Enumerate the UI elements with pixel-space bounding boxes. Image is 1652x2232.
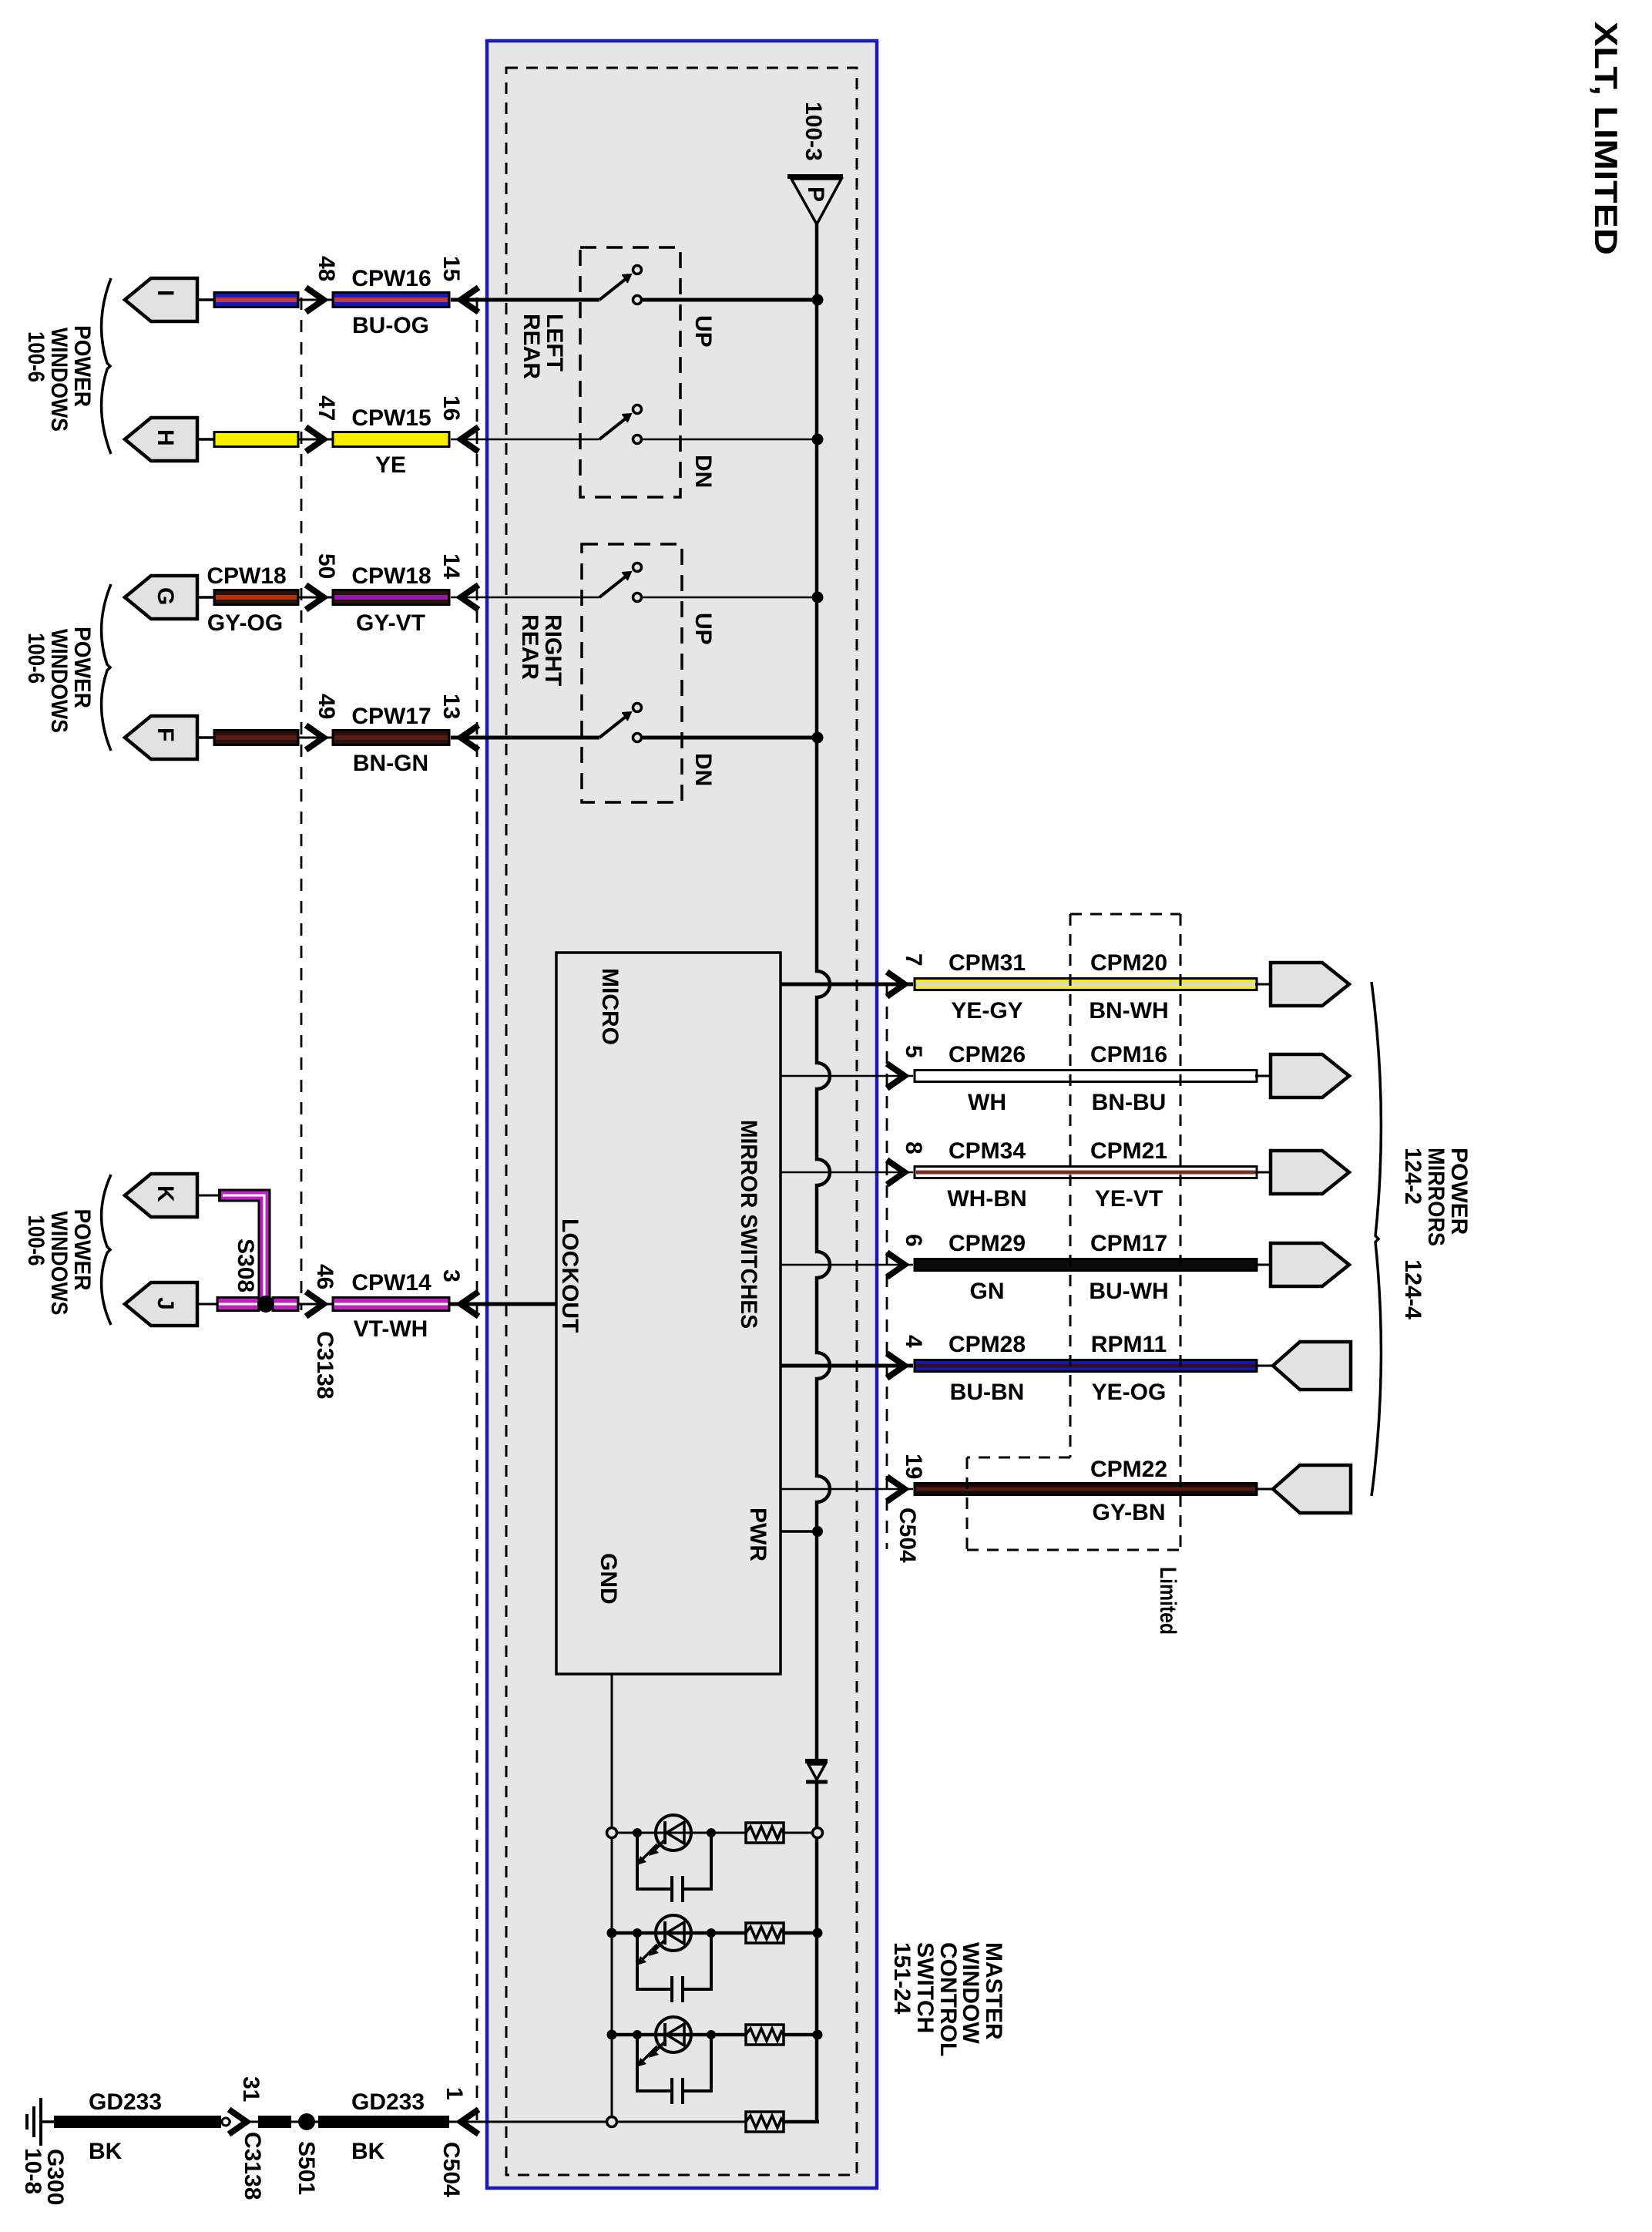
- svg-text:REAR: REAR: [519, 314, 544, 379]
- connector G: [125, 576, 197, 619]
- svg-text:C3138: C3138: [312, 1331, 337, 1399]
- svg-text:Limited: Limited: [1155, 1567, 1180, 1635]
- brace power mirrors: [1372, 982, 1381, 1496]
- left rear window switch dashed box: [580, 247, 680, 497]
- window switch contacts for pin 16: [451, 405, 824, 445]
- brace power windows 2: [102, 584, 111, 751]
- svg-text:1: 1: [442, 2087, 467, 2100]
- wire CPW15 YE pin 16: [197, 427, 478, 452]
- svg-text:13: 13: [438, 694, 464, 719]
- svg-text:100-3: 100-3: [801, 102, 826, 161]
- indicator LED 2 with capacitor and resistor: [607, 1915, 823, 2002]
- svg-text:100-6: 100-6: [23, 331, 49, 382]
- mirror connector pin 19: [1273, 1465, 1351, 1513]
- svg-text:YE-VT: YE-VT: [1095, 1186, 1163, 1212]
- connector C504 boundary right (dashed): [886, 984, 888, 1549]
- wire CPM16 BN-BU pin 5: [781, 1064, 1275, 1088]
- indicator LED 3 with capacitor and resistor: [607, 2017, 823, 2104]
- svg-text:10-8: 10-8: [20, 2148, 45, 2194]
- svg-text:BN-BU: BN-BU: [1092, 1090, 1167, 1115]
- svg-text:CPM26: CPM26: [949, 1042, 1026, 1067]
- wire CPW14 VT-WH pin 3 (lockout): [273, 1292, 556, 1316]
- connector I: [125, 278, 197, 321]
- svg-text:WINDOWS: WINDOWS: [46, 1212, 72, 1316]
- svg-text:POWER: POWER: [69, 325, 95, 407]
- svg-text:47: 47: [314, 395, 339, 421]
- svg-text:151-24: 151-24: [889, 1942, 915, 2015]
- svg-text:5: 5: [901, 1045, 926, 1058]
- svg-text:WH-BN: WH-BN: [947, 1186, 1026, 1212]
- svg-text:CONTROL: CONTROL: [935, 1942, 961, 2056]
- svg-text:31: 31: [238, 2076, 264, 2102]
- PWR pin wire: [781, 1530, 818, 1533]
- svg-text:7: 7: [901, 953, 926, 966]
- svg-text:CPW16: CPW16: [351, 266, 431, 291]
- window switch contacts for pin 14: [451, 563, 824, 603]
- svg-text:BK: BK: [351, 2139, 385, 2164]
- svg-text:CPW17: CPW17: [351, 704, 431, 729]
- brace power windows 1: [102, 278, 111, 454]
- connector J: [125, 1282, 197, 1326]
- svg-text:100-6: 100-6: [23, 633, 49, 684]
- mirror connector pin 6: [1271, 1243, 1349, 1286]
- svg-text:124-2: 124-2: [1400, 1148, 1425, 1205]
- svg-text:GD233: GD233: [89, 2089, 162, 2115]
- C3138 pin 31 arrow: [229, 2109, 247, 2134]
- junction PWR-bus: [812, 1526, 823, 1537]
- svg-text:J: J: [153, 1297, 178, 1310]
- svg-text:SWITCH: SWITCH: [912, 1942, 938, 2033]
- window switch contacts for pin 15: [451, 266, 824, 306]
- wire CPM21 YE-VT pin 8: [781, 1160, 1275, 1185]
- svg-text:MIRROR SWITCHES: MIRROR SWITCHES: [736, 1120, 761, 1329]
- diode on power bus: [805, 1761, 828, 1782]
- mirror connector dashed box: [967, 914, 1180, 1550]
- svg-text:CPW14: CPW14: [351, 1270, 431, 1296]
- svg-text:48: 48: [314, 256, 339, 281]
- wire RPM11 YE-OG pin 4: [781, 1353, 1275, 1378]
- svg-text:CPM29: CPM29: [949, 1231, 1026, 1256]
- svg-text:GY-BN: GY-BN: [1092, 1500, 1165, 1525]
- svg-text:CPM16: CPM16: [1090, 1042, 1167, 1067]
- splice S308: [257, 1296, 274, 1313]
- svg-text:REAR: REAR: [517, 614, 542, 680]
- svg-text:YE-OG: YE-OG: [1092, 1380, 1167, 1405]
- svg-text:K: K: [153, 1185, 178, 1202]
- svg-text:GND: GND: [596, 1553, 621, 1605]
- svg-text:CPM28: CPM28: [949, 1332, 1026, 1357]
- micro block: [556, 953, 781, 1674]
- ground symbol G300: [27, 2098, 55, 2146]
- svg-text:15: 15: [438, 256, 464, 281]
- svg-text:POWER: POWER: [69, 1209, 95, 1291]
- svg-text:LOCKOUT: LOCKOUT: [557, 1219, 583, 1333]
- svg-text:RIGHT: RIGHT: [540, 614, 566, 686]
- svg-text:124-4: 124-4: [1400, 1259, 1425, 1319]
- svg-text:MICRO: MICRO: [597, 968, 623, 1045]
- svg-text:WINDOWS: WINDOWS: [46, 629, 72, 733]
- connector F: [125, 716, 197, 759]
- mirror connector pin 7: [1271, 963, 1349, 1006]
- svg-text:4: 4: [901, 1335, 926, 1348]
- svg-text:BU-BN: BU-BN: [950, 1380, 1025, 1405]
- mirror connector pin 5: [1271, 1054, 1349, 1098]
- svg-text:19: 19: [901, 1454, 926, 1479]
- indicator LED 1 with capacitor and resistor: [607, 1815, 823, 1902]
- svg-text:C3138: C3138: [240, 2132, 265, 2200]
- svg-text:100-6: 100-6: [23, 1215, 49, 1266]
- svg-text:CPM21: CPM21: [1090, 1138, 1167, 1164]
- C504 pin 1 arrow: [461, 2109, 478, 2134]
- wire CPW17 BN-GN pin 13: [197, 725, 478, 750]
- window switch contacts for pin 13: [451, 704, 824, 744]
- svg-text:6: 6: [901, 1234, 926, 1247]
- connector C3138 boundary (dashed): [301, 297, 303, 1310]
- svg-text:BK: BK: [89, 2139, 123, 2164]
- wire CPM17 BU-WH pin 6: [781, 1252, 1275, 1277]
- wire from K (VT-WH): [197, 1195, 264, 1301]
- wire CPM20 BN-WH pin 7: [781, 972, 1275, 997]
- svg-text:P: P: [803, 187, 828, 202]
- svg-text:49: 49: [314, 694, 339, 719]
- svg-text:UP: UP: [690, 315, 716, 348]
- svg-text:CPW15: CPW15: [351, 405, 431, 431]
- inner dashed border of switch box: [506, 68, 857, 2175]
- svg-text:S308: S308: [233, 1239, 258, 1292]
- svg-text:GY-OG: GY-OG: [207, 610, 283, 636]
- svg-text:14: 14: [438, 553, 464, 580]
- svg-text:POWER: POWER: [1446, 1148, 1472, 1235]
- svg-text:YE: YE: [375, 452, 406, 478]
- svg-text:H: H: [153, 429, 178, 446]
- wire CPM22 GY-BN pin 19: [781, 1477, 1275, 1501]
- svg-text:BU-WH: BU-WH: [1089, 1279, 1168, 1304]
- junction GND wire / bottom row: [607, 2117, 617, 2127]
- right rear window switch dashed box: [582, 544, 682, 802]
- svg-text:C504: C504: [895, 1508, 920, 1563]
- svg-text:BU-OG: BU-OG: [352, 313, 429, 338]
- bottom resistor to ground: [449, 2112, 819, 2132]
- svg-text:RPM11: RPM11: [1091, 1332, 1167, 1357]
- wire CPW18 GY-VT pin 14: [197, 585, 478, 610]
- svg-text:8: 8: [901, 1141, 926, 1155]
- svg-text:DN: DN: [690, 753, 716, 786]
- wire from J (VT-WH): [197, 1298, 259, 1311]
- svg-text:PWR: PWR: [745, 1508, 771, 1561]
- svg-text:UP: UP: [690, 613, 716, 645]
- svg-text:46: 46: [312, 1264, 337, 1289]
- svg-text:MASTER: MASTER: [981, 1942, 1006, 2040]
- svg-text:I: I: [153, 290, 178, 296]
- svg-text:C504: C504: [438, 2142, 464, 2197]
- svg-text:WINDOWS: WINDOWS: [46, 328, 72, 432]
- connector C504 boundary left (dashed): [476, 297, 478, 2124]
- svg-text:BN-GN: BN-GN: [353, 751, 428, 776]
- svg-text:CPM20: CPM20: [1090, 950, 1167, 976]
- connector H: [125, 418, 197, 461]
- wire GD233 BK segment 2: [247, 2116, 455, 2128]
- svg-text:WH: WH: [968, 1090, 1006, 1115]
- svg-text:GY-VT: GY-VT: [356, 610, 425, 636]
- connector K: [125, 1174, 197, 1217]
- svg-text:G: G: [153, 587, 178, 605]
- svg-text:16: 16: [438, 395, 464, 421]
- svg-text:DN: DN: [690, 455, 716, 488]
- svg-text:S501: S501: [294, 2141, 319, 2195]
- svg-text:MIRRORS: MIRRORS: [1423, 1148, 1449, 1246]
- svg-text:CPM34: CPM34: [949, 1138, 1026, 1164]
- svg-text:CPM22: CPM22: [1090, 1457, 1167, 1482]
- svg-text:GN: GN: [970, 1279, 1005, 1304]
- wire CPW16 BU-OG pin 15: [197, 287, 478, 312]
- svg-text:CPW18: CPW18: [206, 563, 286, 589]
- svg-text:CPM17: CPM17: [1090, 1231, 1167, 1256]
- svg-text:YE-GY: YE-GY: [951, 998, 1022, 1024]
- mirror connector pin 8: [1271, 1151, 1349, 1194]
- svg-text:XLT, LIMITED: XLT, LIMITED: [1588, 22, 1624, 255]
- svg-text:F: F: [153, 728, 178, 741]
- GND pin wire: [611, 1674, 613, 2122]
- power bus wire from P: [817, 224, 830, 2122]
- svg-text:CPM31: CPM31: [949, 950, 1026, 976]
- svg-text:GD233: GD233: [351, 2089, 425, 2115]
- svg-text:LEFT: LEFT: [542, 314, 567, 371]
- svg-text:VT-WH: VT-WH: [354, 1316, 428, 1342]
- svg-text:50: 50: [314, 553, 339, 579]
- svg-text:POWER: POWER: [69, 627, 95, 708]
- power feed triangle P (100-3): [787, 176, 843, 224]
- brace power windows 3: [102, 1175, 111, 1325]
- splice S501: [298, 2113, 315, 2130]
- master window control switch box (blue outline): [487, 41, 877, 2188]
- svg-text:CPW18: CPW18: [351, 563, 431, 589]
- svg-text:3: 3: [438, 1269, 464, 1282]
- wire GD233 BK segment 1: [54, 2116, 231, 2128]
- svg-text:BN-WH: BN-WH: [1089, 998, 1168, 1024]
- mirror connector pin 4: [1273, 1342, 1351, 1390]
